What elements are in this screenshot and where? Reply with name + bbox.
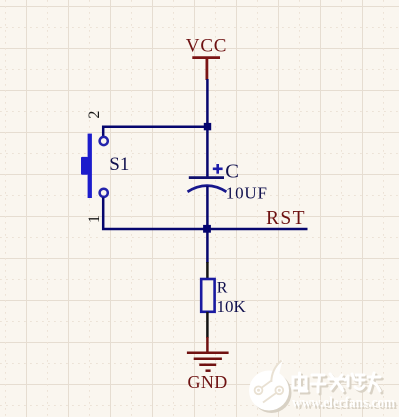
resistor R bottom pin — [206, 312, 209, 338]
switch S1 body — [81, 134, 92, 198]
wire node A to switch pin 2 — [103, 127, 207, 137]
svg-text:R: R — [217, 279, 228, 296]
svg-text:1: 1 — [86, 215, 103, 223]
wire RST — [203, 228, 308, 231]
svg-text:GND: GND — [188, 372, 228, 392]
junction node B — [203, 225, 211, 233]
watermark logo — [249, 360, 292, 414]
ground — [187, 337, 229, 371]
wire VCC to node A — [206, 79, 209, 128]
svg-text:VCC: VCC — [186, 36, 227, 57]
switch S1 pin 1 — [100, 189, 108, 197]
wire switch pin 1 to node B — [103, 198, 203, 230]
switch S1 pin 2 — [100, 137, 108, 145]
svg-text:C: C — [225, 160, 239, 182]
svg-text:10UF: 10UF — [226, 184, 268, 203]
svg-text:RST: RST — [266, 208, 306, 229]
wire node B to resistor R — [206, 230, 209, 263]
watermark text (stylized chinese brand glyphs) — [293, 373, 382, 394]
junction node A — [204, 123, 211, 130]
capacitor C top plate — [189, 176, 224, 179]
svg-text:10K: 10K — [217, 297, 247, 316]
svg-text:S1: S1 — [109, 154, 129, 175]
resistor R top pin — [206, 262, 209, 280]
capacitor C plus sign — [213, 164, 223, 174]
resistor R body — [201, 279, 214, 312]
wire node A to capacitor C — [206, 128, 209, 177]
capacitor C bottom plate (arc) — [188, 186, 227, 192]
svg-text:www.elecfans.com: www.elecfans.com — [292, 395, 395, 411]
power symbol VCC — [192, 58, 220, 80]
svg-text:2: 2 — [86, 111, 103, 119]
wire capacitor C to node B — [206, 186, 209, 230]
